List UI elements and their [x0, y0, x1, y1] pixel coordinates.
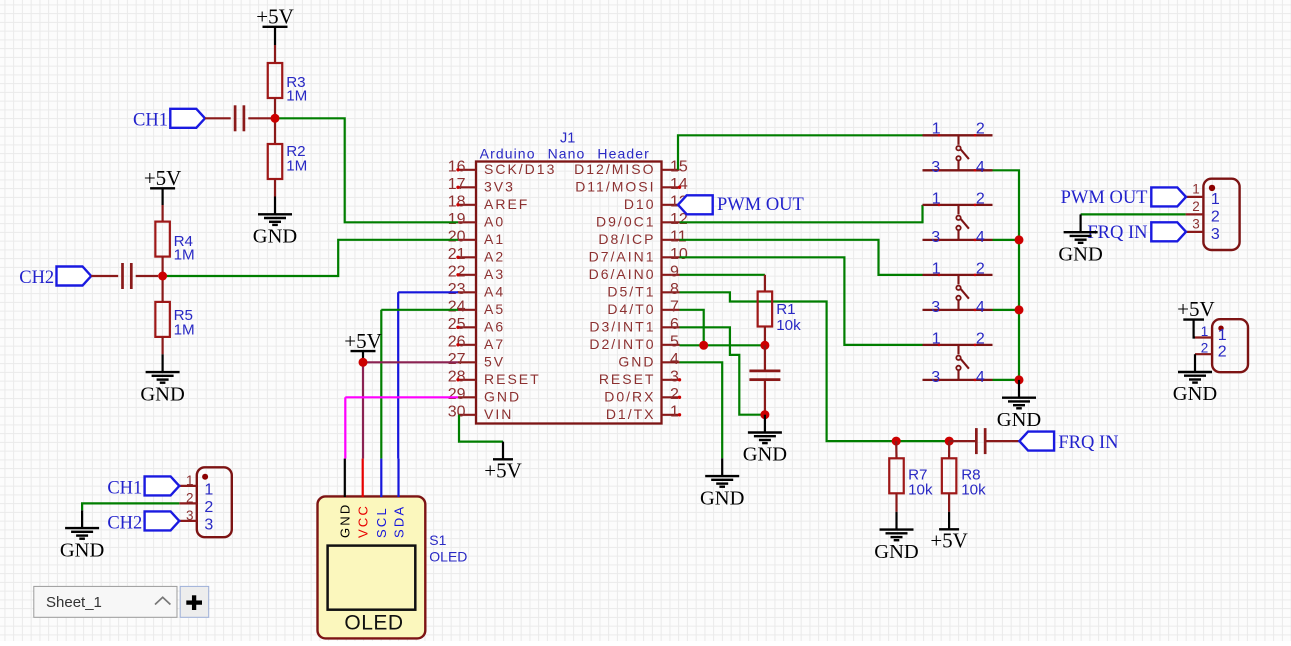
svg-text:1: 1 — [186, 473, 194, 488]
svg-text:A3: A3 — [484, 266, 505, 282]
svg-text:1M: 1M — [286, 88, 307, 105]
svg-text:2: 2 — [186, 490, 194, 505]
svg-text:2: 2 — [1211, 208, 1220, 225]
svg-text:8: 8 — [670, 281, 679, 298]
svg-text:1M: 1M — [174, 321, 195, 338]
svg-text:3: 3 — [204, 517, 213, 534]
svg-text:23: 23 — [448, 281, 466, 298]
svg-text:5V: 5V — [484, 354, 505, 370]
svg-text:2: 2 — [976, 330, 985, 347]
svg-text:D11/MOSI: D11/MOSI — [575, 179, 655, 195]
svg-text:D8/ICP: D8/ICP — [598, 231, 655, 247]
svg-text:CH2: CH2 — [107, 513, 142, 533]
svg-text:3: 3 — [670, 369, 679, 386]
svg-text:18: 18 — [448, 194, 466, 211]
svg-text:A0: A0 — [484, 214, 505, 230]
svg-text:2: 2 — [976, 190, 985, 207]
svg-text:2: 2 — [1218, 344, 1227, 361]
svg-text:10k: 10k — [908, 482, 933, 499]
svg-text:21: 21 — [448, 246, 466, 263]
svg-text:GND: GND — [743, 444, 787, 466]
svg-text:OLED: OLED — [344, 612, 403, 635]
svg-text:6: 6 — [670, 316, 679, 333]
svg-text:11: 11 — [670, 229, 687, 246]
svg-text:4: 4 — [976, 159, 985, 176]
svg-text:1M: 1M — [286, 157, 307, 174]
svg-text:GND: GND — [484, 389, 521, 405]
svg-text:4: 4 — [670, 351, 679, 368]
svg-text:10k: 10k — [961, 482, 986, 499]
svg-text:1: 1 — [1192, 182, 1200, 197]
svg-text:GND: GND — [60, 539, 104, 561]
svg-text:1: 1 — [932, 260, 941, 277]
svg-text:CH2: CH2 — [19, 268, 54, 288]
svg-text:4: 4 — [976, 369, 985, 386]
svg-text:+5V: +5V — [1177, 297, 1215, 321]
svg-text:CH1: CH1 — [107, 478, 142, 498]
svg-text:1: 1 — [1218, 327, 1227, 344]
svg-text:1: 1 — [204, 482, 213, 499]
svg-text:2: 2 — [976, 121, 985, 138]
svg-text:D4/T0: D4/T0 — [607, 301, 655, 317]
svg-text:D3/INT1: D3/INT1 — [589, 319, 655, 335]
svg-text:SDA: SDA — [391, 505, 406, 538]
svg-text:30: 30 — [448, 404, 466, 421]
svg-text:2: 2 — [1201, 341, 1209, 356]
svg-text:D12/MISO: D12/MISO — [574, 161, 655, 177]
svg-text:Sheet_1: Sheet_1 — [46, 594, 102, 611]
svg-text:VIN: VIN — [484, 406, 513, 422]
svg-text:10: 10 — [670, 246, 688, 263]
svg-text:A6: A6 — [484, 319, 505, 335]
svg-text:20: 20 — [448, 229, 466, 246]
svg-text:1: 1 — [932, 121, 941, 138]
svg-text:J1: J1 — [560, 131, 575, 147]
svg-text:VCC: VCC — [356, 504, 371, 538]
svg-text:2: 2 — [1192, 199, 1200, 214]
svg-text:D1/TX: D1/TX — [606, 406, 656, 422]
svg-text:2: 2 — [976, 260, 985, 277]
svg-text:5: 5 — [670, 334, 679, 351]
svg-text:10k: 10k — [776, 317, 801, 334]
svg-text:3: 3 — [1211, 226, 1220, 243]
svg-text:1: 1 — [1201, 324, 1209, 339]
svg-text:1: 1 — [670, 404, 679, 421]
svg-text:RESET: RESET — [599, 371, 656, 387]
svg-text:2: 2 — [670, 386, 679, 403]
svg-text:PWM OUT: PWM OUT — [717, 195, 804, 215]
svg-text:3: 3 — [1192, 217, 1200, 232]
svg-text:17: 17 — [448, 176, 466, 193]
svg-text:A4: A4 — [484, 284, 505, 300]
svg-text:GND: GND — [1173, 383, 1217, 405]
svg-text:28: 28 — [448, 369, 466, 386]
svg-text:A2: A2 — [484, 249, 505, 265]
svg-text:1: 1 — [932, 330, 941, 347]
svg-text:OLED: OLED — [429, 549, 467, 565]
svg-text:25: 25 — [448, 316, 466, 333]
svg-text:3: 3 — [931, 369, 940, 386]
svg-text:A5: A5 — [484, 301, 505, 317]
svg-text:A7: A7 — [484, 336, 505, 352]
svg-text:GND: GND — [253, 226, 297, 248]
svg-text:+5V: +5V — [344, 329, 382, 353]
svg-text:D9/0C1: D9/0C1 — [596, 214, 655, 230]
svg-text:1: 1 — [1211, 191, 1220, 208]
svg-text:22: 22 — [448, 264, 466, 281]
svg-text:GND: GND — [997, 409, 1041, 431]
svg-text:GND: GND — [700, 487, 744, 509]
svg-text:D2/INT0: D2/INT0 — [589, 336, 655, 352]
svg-text:3: 3 — [931, 229, 940, 246]
svg-text:4: 4 — [976, 299, 985, 316]
svg-text:+5V: +5V — [484, 459, 522, 483]
svg-text:29: 29 — [448, 386, 466, 403]
svg-text:3: 3 — [186, 508, 194, 523]
svg-text:CH1: CH1 — [133, 110, 168, 130]
svg-text:14: 14 — [670, 176, 688, 193]
svg-text:GND: GND — [618, 354, 655, 370]
svg-text:D6/AIN0: D6/AIN0 — [589, 266, 656, 282]
svg-text:D10: D10 — [624, 196, 656, 212]
svg-text:3: 3 — [931, 159, 940, 176]
svg-text:26: 26 — [448, 334, 466, 351]
svg-text:D7/AIN1: D7/AIN1 — [589, 249, 656, 265]
svg-text:D5/T1: D5/T1 — [607, 284, 655, 300]
svg-text:Arduino Nano Header: Arduino Nano Header — [480, 145, 650, 161]
svg-text:SCL: SCL — [374, 506, 389, 538]
svg-text:GND: GND — [338, 503, 353, 539]
svg-text:S1: S1 — [429, 532, 446, 548]
svg-text:AREF: AREF — [484, 196, 529, 212]
svg-text:19: 19 — [448, 211, 466, 228]
svg-text:SCK/D13: SCK/D13 — [484, 161, 556, 177]
svg-text:A1: A1 — [484, 231, 505, 247]
svg-text:GND: GND — [1058, 243, 1102, 265]
svg-text:1M: 1M — [174, 246, 195, 263]
svg-text:RESET: RESET — [484, 371, 541, 387]
svg-text:FRQ IN: FRQ IN — [1058, 433, 1118, 453]
svg-text:GND: GND — [874, 541, 918, 563]
svg-text:1: 1 — [932, 190, 941, 207]
svg-text:16: 16 — [448, 159, 466, 176]
svg-text:7: 7 — [670, 299, 679, 316]
svg-text:+5V: +5V — [144, 166, 182, 190]
svg-text:3V3: 3V3 — [484, 179, 515, 195]
svg-text:+5V: +5V — [256, 5, 294, 29]
svg-text:D0/RX: D0/RX — [604, 389, 655, 405]
svg-text:GND: GND — [140, 383, 184, 405]
svg-text:+5V: +5V — [930, 529, 968, 553]
svg-text:4: 4 — [976, 229, 985, 246]
svg-text:24: 24 — [448, 299, 466, 316]
svg-text:R1: R1 — [776, 301, 795, 318]
svg-text:27: 27 — [448, 351, 466, 368]
svg-text:3: 3 — [931, 299, 940, 316]
svg-text:9: 9 — [670, 264, 679, 281]
svg-text:2: 2 — [204, 499, 213, 516]
svg-text:PWM OUT: PWM OUT — [1061, 188, 1148, 208]
